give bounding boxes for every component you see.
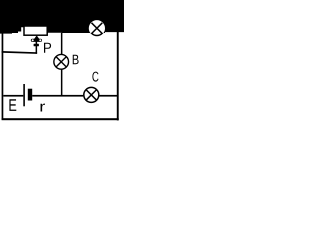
lamp C cross stroke 2: [86, 90, 97, 101]
black redaction band: [0, 0, 124, 34]
lamp C: [84, 87, 99, 102]
top-right lamp cross stroke 1: [92, 23, 103, 34]
wire: left rail to battery: [3, 95, 23, 97]
label B: [73, 55, 79, 65]
wiper stem junction blob: [34, 44, 39, 47]
left rail wire: [2, 33, 4, 119]
lamp B cross stroke 2: [56, 57, 66, 67]
label r: [41, 104, 46, 112]
background: [0, 0, 124, 128]
rheostat wiper slider bar: [31, 39, 42, 42]
wiper bar left dot: [32, 39, 34, 41]
wire: rheostat stem to left rail: [2, 51, 38, 54]
lamp B bottom wire: [61, 69, 63, 97]
lamp C cross stroke 1: [86, 90, 97, 101]
label C: [92, 72, 98, 82]
wiper stem wire: [36, 42, 38, 54]
wiper bar right dot: [39, 39, 41, 41]
right rail wire: [117, 32, 119, 120]
lamp B cross stroke 1: [56, 57, 66, 67]
label E: [9, 99, 16, 111]
top-right lamp cross stroke 2: [92, 23, 103, 34]
wire: lamp C to right rail: [99, 95, 118, 97]
rheostat wiper arrowhead: [34, 35, 40, 39]
battery E short plate: [28, 89, 32, 101]
lamp B: [54, 54, 69, 69]
label P: [44, 43, 51, 53]
top-right lamp white disk: [89, 20, 105, 36]
bottom rail wire: [2, 118, 119, 120]
lamp B top wire: [61, 33, 63, 55]
wire: battery to lamp C: [32, 95, 83, 97]
rheostat P body: [24, 26, 47, 35]
top-right lamp lower rim arc: [90, 21, 105, 36]
battery E long plate: [23, 84, 25, 106]
